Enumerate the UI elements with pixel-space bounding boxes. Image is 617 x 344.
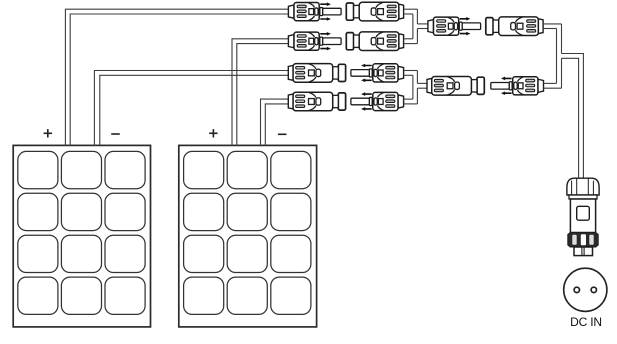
wire W8: row4 male tail to merge bracket 2 — [404, 99, 418, 104]
wire W2: PV1 - to row3 female — [94, 71, 288, 146]
wire W10: bottom-right male tail to junction — [544, 83, 562, 88]
top-right male connector M5 — [428, 17, 481, 35]
PV2 plus label — [209, 129, 217, 137]
PV2 minus label — [278, 133, 287, 135]
bottom-right male connector M6 (mirrored) — [491, 77, 544, 95]
solar panel PV1 frame — [13, 145, 150, 327]
row2 female connector F2 — [346, 32, 403, 51]
DC IN socket pin left — [574, 287, 579, 292]
wire W3: PV2 + to row2 male — [232, 39, 288, 146]
row4 male connector M4 (mirrored) — [351, 92, 404, 110]
DC plug body window — [577, 206, 590, 220]
svg-text:DC IN: DC IN — [570, 315, 602, 329]
solar panel PV2 frame — [179, 145, 317, 327]
DC plug body — [570, 199, 595, 233]
wire W7: row3 male tail to merge bracket 2 — [404, 71, 418, 76]
wire W6: row2 female tail to merge bracket 1 — [404, 39, 418, 44]
row1 female connector F1 — [346, 2, 403, 21]
PV1 minus label — [111, 133, 120, 135]
junction vertical cable — [557, 24, 562, 88]
wire W1: PV1 + to row1 male — [65, 9, 288, 145]
row3 male connector M3 (mirrored) — [351, 64, 404, 82]
DC IN socket circle — [564, 268, 607, 311]
solar panel PV2 cells — [184, 151, 311, 314]
PV1 plus label — [44, 129, 52, 137]
row3 female connector F3 (mirrored) — [288, 64, 345, 83]
branch cable to DC plug — [562, 54, 584, 179]
top-right female connector F5 — [486, 17, 543, 36]
DC IN socket pin right — [591, 287, 596, 292]
wire W9: top-right female tail to junction — [543, 24, 561, 29]
DC plug gland nut — [567, 178, 599, 195]
DC plug tip — [574, 247, 593, 256]
row2 male connector M2 — [288, 32, 341, 50]
merge bracket 1 (rows 1+2 combine) — [413, 9, 428, 43]
DC plug collar — [569, 195, 597, 199]
wire W5: row1 female tail to merge bracket 1 — [404, 9, 418, 14]
DC plug knurled nut — [568, 233, 598, 248]
merge bracket 2 (rows 3+4 combine) — [413, 71, 427, 104]
row1 male connector M1 — [288, 2, 341, 20]
wire W4: PV2 - to row4 female — [261, 99, 289, 146]
bottom-right female connector F6 (mirrored) — [427, 77, 484, 96]
solar panel PV1 cells — [18, 151, 145, 314]
row4 female connector F4 (mirrored) — [288, 92, 345, 111]
